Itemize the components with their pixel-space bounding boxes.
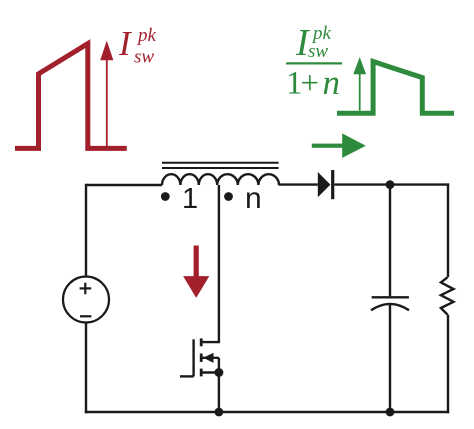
waveform secondary current (green): [337, 62, 454, 114]
arrow output current direction (green thick right arrow): [312, 133, 366, 158]
gate lead: [180, 375, 194, 377]
diode D1: [318, 170, 335, 199]
svg-text:n: n: [245, 182, 262, 215]
gate line: [192, 339, 194, 376]
wire left rail upper: [85, 184, 87, 277]
channel segment drain: [200, 338, 203, 346]
capacitor C1: [371, 185, 409, 412]
resistor R1: [441, 277, 454, 314]
body connection with arrow: [201, 357, 219, 359]
svg-text:pk: pk: [136, 25, 157, 46]
dot winding 1 (phase dot): [161, 192, 170, 201]
junction dot output top: [386, 180, 395, 189]
wire tap down to MOSFET drain: [201, 185, 219, 342]
arrow Isw peak amplitude (red thin up arrow): [100, 41, 113, 148]
junction dot bottom tap: [215, 408, 224, 417]
source lead: [201, 371, 219, 373]
wire bottom rail: [85, 411, 449, 413]
wire source down to bottom rail: [218, 373, 220, 413]
channel segment body: [200, 354, 203, 362]
wire left rail lower: [85, 322, 87, 413]
svg-text:+: +: [301, 66, 320, 102]
svg-text:sw: sw: [134, 47, 154, 68]
label Isw^pk / (1+n) (green fraction): [286, 22, 342, 102]
coupled inductor T1 core: [162, 163, 279, 168]
source V1: [63, 277, 109, 323]
wire right rail upper: [447, 183, 449, 277]
channel segment source: [200, 369, 203, 377]
label Isw^pk (red): [118, 24, 157, 68]
arrow magnetizing current (red thick down arrow): [183, 246, 209, 298]
wire winding-n to diode: [279, 183, 318, 185]
body to source wire: [218, 358, 220, 373]
svg-text:sw: sw: [308, 41, 328, 62]
junction dot bottom cap: [386, 408, 395, 417]
mosfet Q1: [180, 338, 219, 376]
svg-text:1: 1: [182, 183, 198, 215]
wire top-left rail: [86, 184, 162, 186]
waveform primary switch current (red trapezoid): [15, 44, 127, 149]
wire right rail lower: [447, 315, 449, 414]
arrow Isw/(1+n) amplitude (green thin up arrow): [353, 57, 366, 111]
junction dot source node: [214, 368, 223, 377]
svg-text:n: n: [323, 63, 341, 102]
wire diode to output node: [334, 183, 449, 185]
coupled inductor T1 windings: [162, 174, 279, 185]
dot winding n (phase dot): [224, 192, 233, 201]
